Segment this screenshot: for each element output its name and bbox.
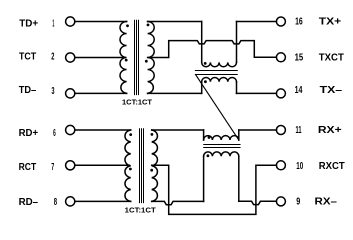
wire pin8 to T2 primary bottom: [75, 200, 131, 202]
svg-text:8: 8: [54, 197, 58, 208]
wire pin1 to T1 primary top: [75, 21, 127, 23]
svg-text:RCT: RCT: [19, 162, 37, 173]
choke CM1 right vertical (top winding): [236, 22, 238, 63]
label RXCT: [319, 161, 345, 172]
wire T1 secondary center tap (TXCT) with crossover hops: [148, 41, 277, 58]
svg-text:TXCT: TXCT: [319, 52, 344, 63]
transformer T1 primary winding: [120, 22, 127, 94]
choke CM1 left vertical (bottom winding): [201, 82, 203, 94]
transformer T2 secondary lower-half phase dot: [150, 169, 153, 172]
svg-text:1: 1: [52, 18, 54, 29]
pin number 10: [296, 161, 303, 172]
transformer T2 core: [140, 129, 144, 203]
choke CM2 top winding phase dot: [208, 136, 211, 139]
choke CM1 bottom winding phase dot: [204, 80, 207, 83]
label TX+: [319, 17, 342, 28]
wire pin7 to T2 primary center tap: [75, 164, 129, 166]
svg-text:TD+: TD+: [19, 18, 38, 29]
label TD+: [19, 18, 38, 29]
pin number 15: [295, 52, 304, 63]
label TD-: [19, 85, 37, 96]
transformer T1 core: [135, 20, 139, 94]
pin number 7: [51, 162, 54, 173]
label TCT: [19, 52, 36, 63]
label 1CT:1CT for T1: [122, 100, 153, 107]
svg-text:9: 9: [296, 197, 300, 208]
label RCT: [19, 162, 37, 173]
terminal pin 15: [276, 53, 285, 62]
terminal pin 9: [276, 197, 285, 206]
choke CM1 left vertical (top winding): [201, 22, 203, 63]
transformer T1 secondary lower-half phase dot: [145, 60, 148, 63]
pin number 16: [295, 17, 303, 28]
wire choke CM2 to pin 9 (hops over RXCT rise): [239, 201, 277, 204]
svg-text:11: 11: [296, 125, 302, 136]
annotation diagonal line between chokes: [196, 75, 239, 140]
choke CM1 core: [195, 71, 237, 75]
pin number 14: [295, 85, 303, 96]
svg-text:7: 7: [51, 162, 54, 173]
wire T2 secondary top to choke CM2: [152, 129, 204, 131]
svg-text:6: 6: [53, 128, 56, 139]
svg-text:10: 10: [296, 161, 303, 172]
transformer T2 secondary top phase dot: [151, 133, 154, 136]
transformer T1 primary lower-half phase dot: [125, 59, 128, 62]
terminal pin 3: [66, 89, 75, 98]
terminal pin 6: [66, 125, 75, 134]
wire choke CM2 to pin 11: [239, 129, 277, 131]
terminal pin 1: [66, 17, 75, 26]
transformer T2 primary top phase dot: [129, 133, 132, 136]
svg-text:TX+: TX+: [319, 17, 342, 28]
label TX-: [320, 85, 343, 96]
svg-text:14: 14: [295, 85, 303, 96]
choke CM2 right vertical (bottom winding): [238, 156, 240, 201]
svg-text:RX+: RX+: [318, 125, 342, 136]
pin number 3: [52, 86, 55, 97]
label RD-: [19, 197, 39, 208]
choke CM1 right vertical (bottom winding): [236, 82, 238, 94]
pin number 8: [54, 197, 58, 208]
wire T1 secondary top to choke CM1: [148, 21, 202, 23]
svg-text:1CT:1CT: 1CT:1CT: [122, 100, 153, 107]
terminal pin 10: [276, 161, 285, 170]
terminal pin 8: [66, 197, 75, 206]
svg-text:TD–: TD–: [19, 85, 37, 96]
transformer T2 primary winding: [125, 130, 131, 201]
label 1CT:1CT for T2: [125, 207, 157, 214]
pin number 9: [296, 197, 300, 208]
choke CM2 left vertical (bottom winding): [203, 156, 205, 201]
svg-text:RX–: RX–: [315, 197, 338, 208]
choke CM2 bottom winding phase dot: [207, 154, 210, 157]
choke CM1 top winding: [202, 62, 237, 66]
wire T2 secondary bottom to choke CM2 (hops over RXCT drop): [152, 201, 204, 204]
label RD+: [19, 128, 39, 139]
transformer T1 primary top phase dot: [126, 24, 129, 27]
transformer T1 secondary top phase dot: [147, 24, 150, 27]
svg-text:2: 2: [51, 52, 54, 63]
wire pin3 to T1 primary bottom: [75, 92, 127, 94]
pin number 1: [52, 18, 54, 29]
wire pin2 to T1 primary center tap: [75, 57, 125, 59]
label RX+: [318, 125, 342, 136]
choke CM2 right vertical (top winding): [238, 130, 240, 140]
pin number 11: [296, 125, 302, 136]
choke CM2 bottom winding: [204, 152, 239, 156]
terminal pin 2: [66, 53, 75, 62]
terminal pin 14: [276, 89, 285, 98]
svg-text:15: 15: [295, 52, 304, 63]
transformer T2 primary lower-half phase dot: [129, 168, 132, 171]
pin number 2: [51, 52, 54, 63]
svg-text:TCT: TCT: [19, 52, 36, 63]
wire T1 secondary bottom to choke CM1: [148, 92, 202, 94]
svg-text:RXCT: RXCT: [319, 161, 345, 172]
svg-text:TX–: TX–: [320, 85, 343, 96]
transformer T1 secondary winding: [148, 22, 155, 94]
svg-text:1CT:1CT: 1CT:1CT: [125, 207, 157, 214]
choke CM2 left vertical (top winding): [203, 130, 205, 140]
terminal pin 7: [66, 161, 75, 170]
choke CM1 bottom winding: [202, 77, 237, 81]
choke CM1 top winding phase dot: [204, 62, 207, 65]
terminal pin 11: [276, 126, 285, 135]
label TXCT: [319, 52, 344, 63]
svg-text:RD+: RD+: [19, 128, 39, 139]
label RX-: [315, 197, 338, 208]
choke CM2 core: [204, 145, 240, 148]
svg-text:RD–: RD–: [19, 197, 39, 208]
transformer T2 secondary winding: [152, 130, 158, 201]
wire choke CM1 to pin 14: [237, 92, 277, 94]
svg-text:3: 3: [52, 86, 55, 97]
wire choke CM1 to pin 16: [237, 21, 277, 23]
pin number 6: [53, 128, 56, 139]
terminal pin 16: [276, 17, 285, 26]
wire T2 secondary center tap (RXCT) with crossover hops: [152, 165, 277, 214]
choke CM2 top winding: [204, 136, 239, 140]
svg-text:16: 16: [295, 17, 303, 28]
wire pin6 to T2 primary top: [75, 129, 131, 131]
